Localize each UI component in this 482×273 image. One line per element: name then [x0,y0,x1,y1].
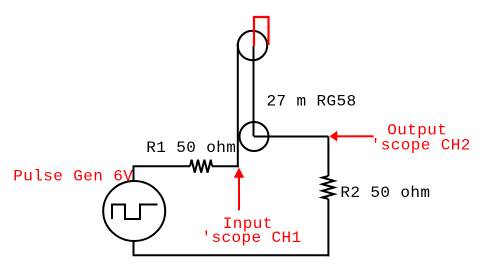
wire pulse gen top to R1 [134,166,191,182]
svg-text:'scope CH1: 'scope CH1 [202,229,302,247]
wire coil center conductor [253,46,255,137]
pulse generator G1 [103,181,165,241]
coax coil bottom loop [240,122,269,151]
wire coil left side down to input node [237,43,239,167]
resistor R1 [190,160,212,173]
svg-text:R2 50 ohm: R2 50 ohm [340,184,430,202]
output probe arrow (red) [330,131,374,142]
wire output node to R2 [327,137,329,177]
coax coil top loop [238,31,267,60]
svg-text:Pulse Gen 6V: Pulse Gen 6V [13,167,133,185]
resistor R2 [322,176,334,199]
svg-text:R1 50 ohm: R1 50 ohm [146,139,236,157]
wire coil to output node [254,136,328,138]
wire bottom return [134,241,330,255]
svg-text:'scope CH2: 'scope CH2 [371,136,471,154]
cable end marker (red) [254,17,269,46]
wire R1 to input node [212,165,239,167]
wire R2 to bottom [327,199,329,256]
svg-text:27 m RG58: 27 m RG58 [267,93,357,111]
input probe arrow (red) [234,168,244,211]
